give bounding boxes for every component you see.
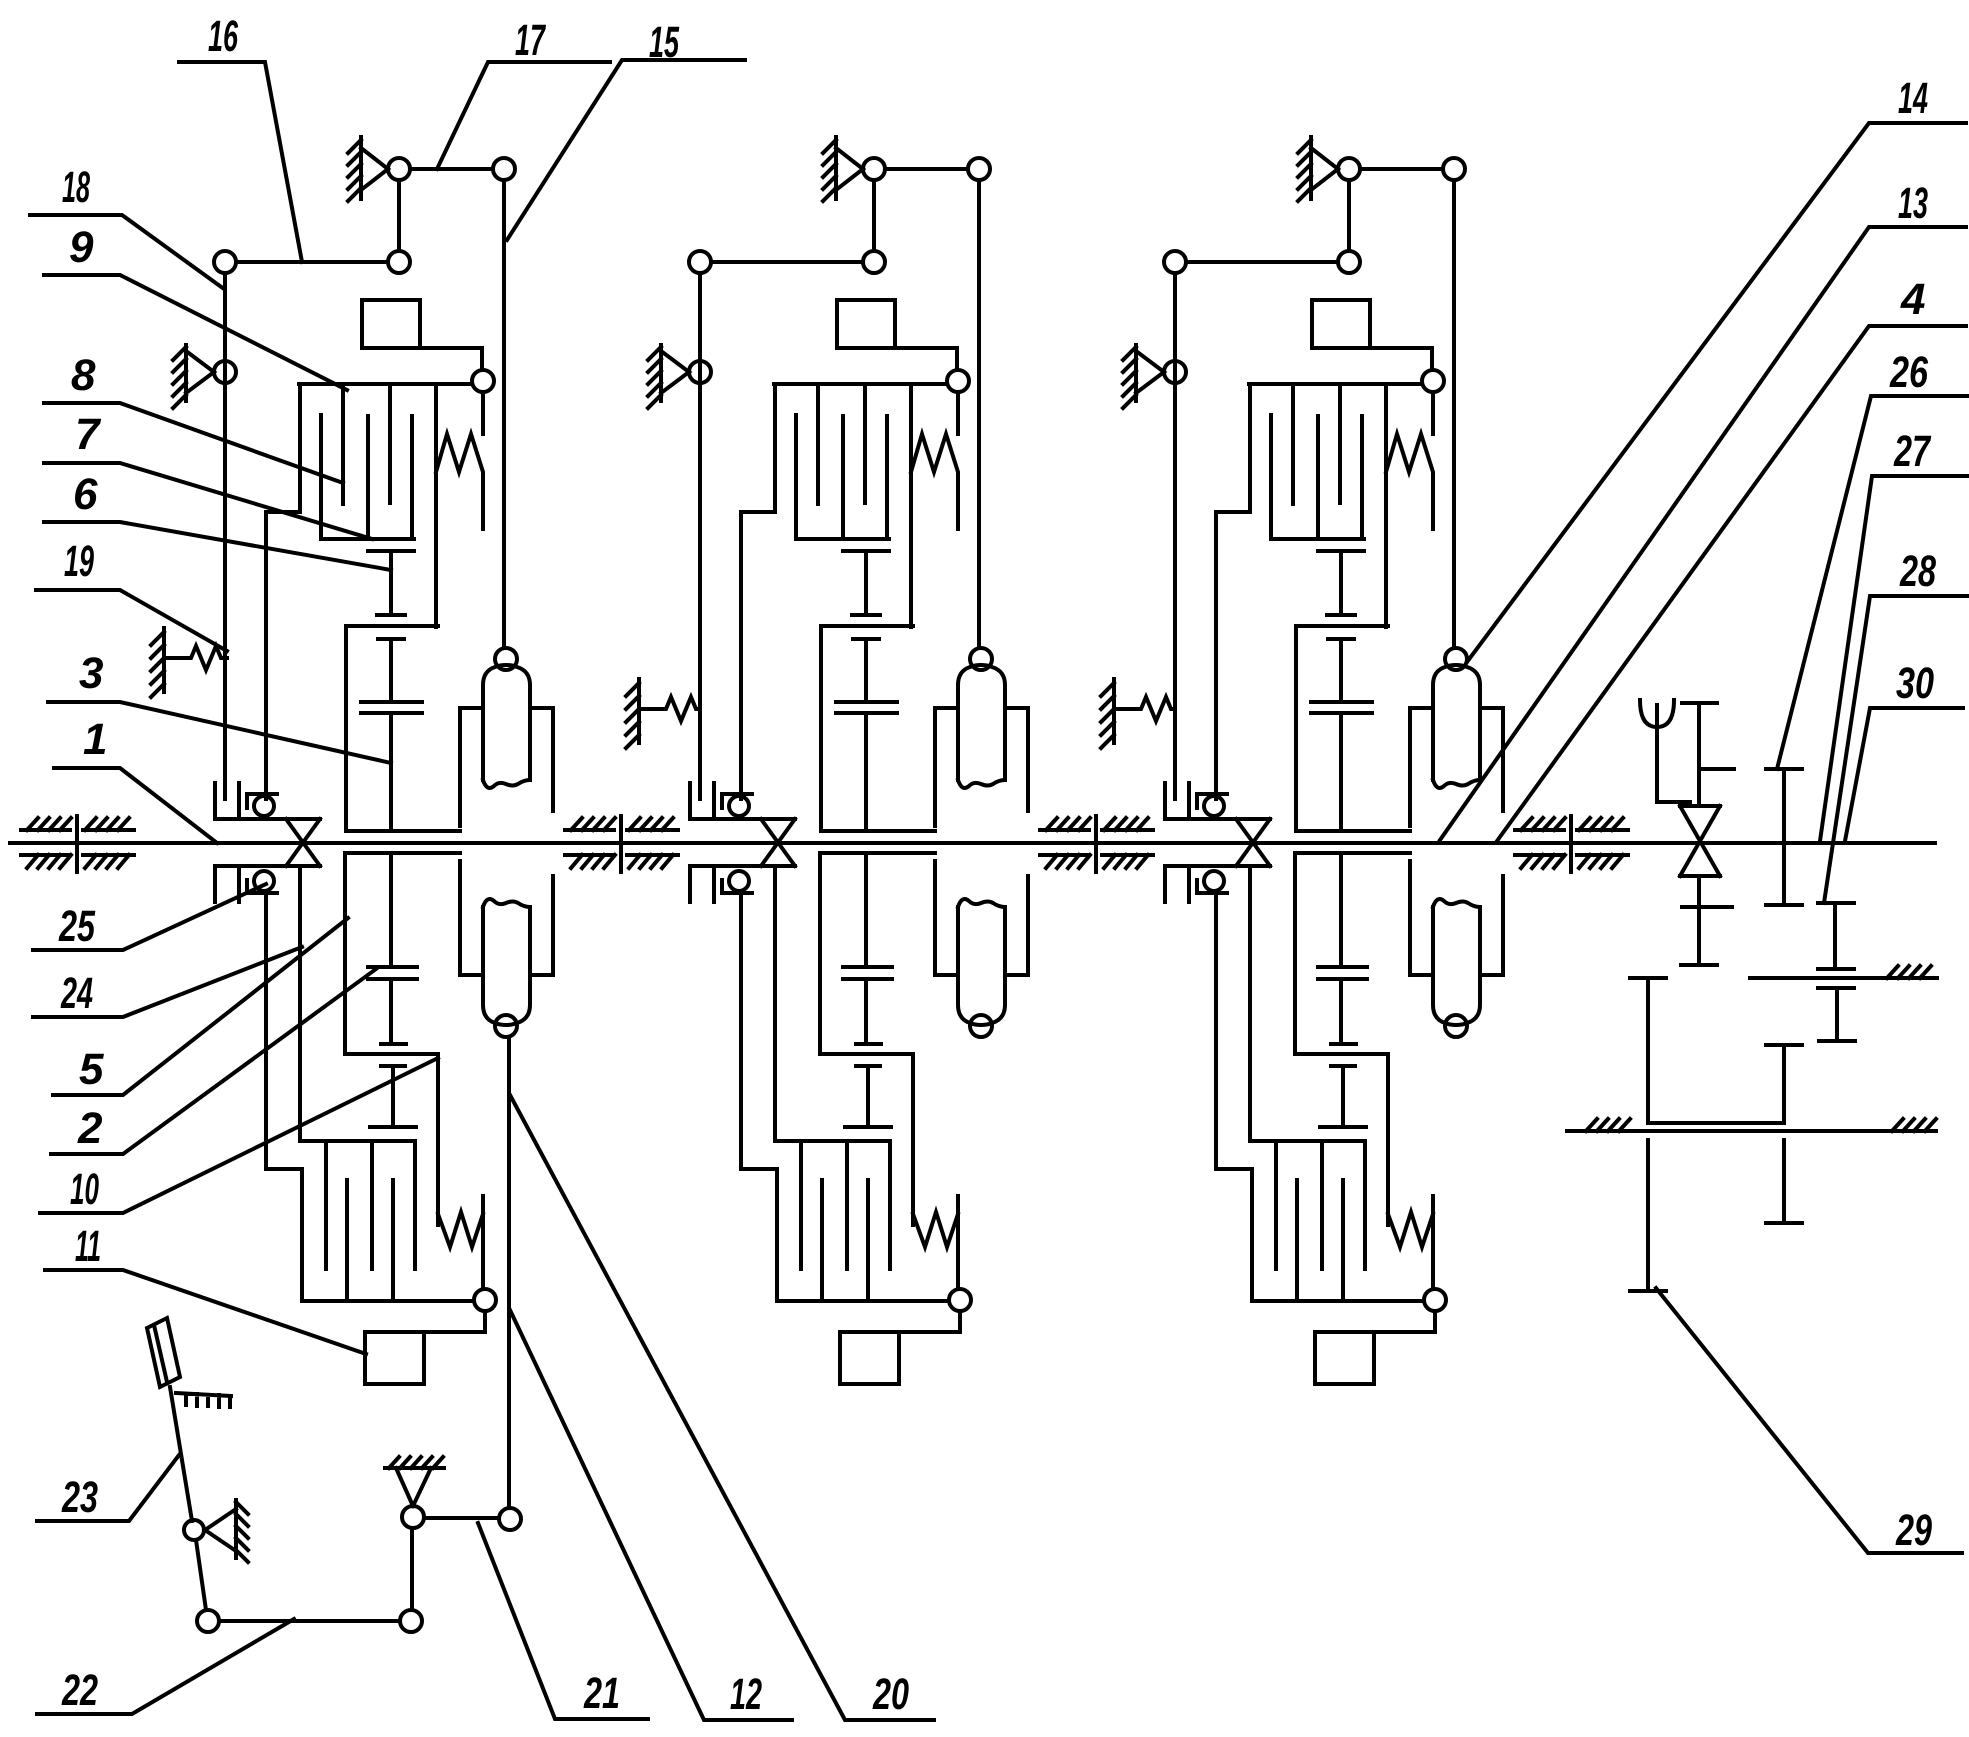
label 5 bbox=[53, 918, 348, 1095]
intermediate shaft bbox=[1750, 976, 1937, 980]
label 16 bbox=[179, 12, 302, 262]
svg-text:23: 23 bbox=[61, 1473, 98, 1522]
brake spring module 3: zigzag bbox=[1114, 697, 1175, 721]
label 22 bbox=[37, 1619, 294, 1715]
control rod from module 1 piston bbox=[507, 1037, 511, 1508]
output bearing cross bbox=[1680, 806, 1720, 876]
planetary module 1 bbox=[173, 137, 553, 1384]
output drum left wall upper bbox=[1630, 978, 1784, 1123]
bottom left joint circle bbox=[197, 1610, 219, 1632]
label 13 bbox=[1440, 179, 1966, 840]
brake spring module 2: zigzag bbox=[639, 697, 700, 721]
label 26 bbox=[1777, 348, 1968, 769]
link bellcrank to rod bbox=[424, 1516, 499, 1520]
label 9 bbox=[44, 223, 347, 390]
label 29 bbox=[1656, 1288, 1962, 1555]
svg-text:29: 29 bbox=[1895, 1506, 1932, 1555]
label 4 bbox=[1497, 275, 1966, 841]
bellcrank pivot circle bbox=[402, 1506, 424, 1528]
svg-text:11: 11 bbox=[75, 1222, 101, 1271]
svg-text:1: 1 bbox=[83, 715, 107, 764]
label 8 bbox=[44, 351, 343, 483]
bellcrank lower joint circle bbox=[400, 1610, 422, 1632]
label 30 bbox=[1845, 659, 1963, 841]
svg-text:26: 26 bbox=[1889, 348, 1928, 397]
output drum left wall lower bbox=[1630, 1140, 1666, 1291]
label 27 bbox=[1820, 427, 1968, 841]
output shaft hatches right bbox=[1892, 1119, 1936, 1131]
gear column on main shaft (right section) bbox=[1681, 703, 1734, 965]
frame support left end bbox=[21, 816, 134, 872]
rod end joint circle bbox=[499, 1508, 521, 1530]
svg-text:10: 10 bbox=[70, 1165, 99, 1214]
svg-text:25: 25 bbox=[58, 902, 95, 951]
ratchet quadrant bbox=[176, 1393, 231, 1407]
svg-text:3: 3 bbox=[79, 649, 103, 698]
svg-text:2: 2 bbox=[77, 1104, 103, 1153]
svg-text:24: 24 bbox=[60, 969, 93, 1018]
label 18 bbox=[30, 163, 224, 289]
label 14 bbox=[1467, 74, 1966, 662]
svg-text:5: 5 bbox=[79, 1045, 104, 1094]
label 11 bbox=[45, 1222, 366, 1354]
pedal pad bbox=[147, 1318, 180, 1387]
bellcrank support triangle bbox=[396, 1468, 431, 1506]
label 21 bbox=[478, 1523, 648, 1719]
label 6 bbox=[44, 470, 391, 570]
label 19 bbox=[36, 537, 227, 651]
svg-text:30: 30 bbox=[1896, 659, 1934, 708]
svg-text:22: 22 bbox=[61, 1666, 98, 1715]
svg-text:28: 28 bbox=[1899, 547, 1936, 596]
svg-text:4: 4 bbox=[1900, 275, 1925, 324]
svg-text:6: 6 bbox=[73, 470, 98, 519]
svg-text:27: 27 bbox=[1893, 427, 1932, 476]
frame support right of module 3 bbox=[1515, 816, 1628, 872]
output drum right wall upper bbox=[1766, 1045, 1802, 1123]
lever pivot circle bbox=[184, 1520, 204, 1540]
output shaft hatches left bbox=[1586, 1119, 1630, 1131]
label 17 bbox=[437, 16, 610, 169]
idler gear right section bbox=[1766, 769, 1802, 905]
label 10 bbox=[40, 1058, 438, 1214]
brake spring module 1: zigzag bbox=[164, 646, 227, 670]
label 2 bbox=[51, 969, 376, 1154]
svg-text:7: 7 bbox=[75, 410, 102, 459]
bellcrank vertical link bbox=[410, 1528, 414, 1610]
svg-text:21: 21 bbox=[583, 1669, 620, 1718]
svg-text:9: 9 bbox=[69, 223, 94, 272]
planetary module 3 bbox=[1123, 137, 1503, 1384]
intermediate shaft hatches bbox=[1887, 966, 1931, 978]
label 12 bbox=[510, 1310, 792, 1720]
planetary module 2 bbox=[648, 137, 1028, 1384]
svg-text:8: 8 bbox=[71, 351, 96, 400]
svg-text:16: 16 bbox=[208, 12, 238, 61]
svg-text:19: 19 bbox=[64, 537, 94, 586]
label 1 bbox=[54, 715, 217, 843]
brake spring module 3: wall bbox=[1101, 679, 1114, 748]
svg-text:20: 20 bbox=[872, 1670, 909, 1719]
svg-text:13: 13 bbox=[1898, 179, 1928, 228]
label 7 bbox=[44, 410, 372, 539]
lever support wall (hatched) bbox=[236, 1500, 248, 1562]
output shaft bbox=[1567, 1129, 1936, 1133]
pinion on intermediate shaft (lower) bbox=[1818, 988, 1855, 1041]
label 25 bbox=[33, 884, 266, 951]
output drum right wall lower bbox=[1766, 1140, 1802, 1223]
fork rod bbox=[1657, 742, 1690, 802]
svg-text:14: 14 bbox=[1898, 74, 1928, 123]
bellcrank ground support bbox=[385, 1457, 444, 1468]
label 3 bbox=[48, 649, 391, 763]
lever support triangle bbox=[205, 1509, 236, 1551]
main shaft bbox=[10, 841, 1935, 845]
label 23 bbox=[37, 1455, 179, 1522]
svg-text:12: 12 bbox=[730, 1670, 762, 1719]
link lever to bottom joint bbox=[196, 1540, 206, 1610]
frame support between module 1 and 2 bbox=[565, 816, 678, 872]
label 15 bbox=[507, 18, 745, 240]
label 20 bbox=[510, 1095, 934, 1720]
label 24 bbox=[33, 947, 302, 1018]
svg-text:18: 18 bbox=[62, 163, 90, 212]
release fork symbol bbox=[1640, 700, 1674, 742]
brake spring module 1: wall bbox=[151, 628, 164, 697]
bottom link bbox=[219, 1619, 400, 1623]
pinion on intermediate shaft (upper) bbox=[1818, 903, 1854, 969]
label 28 bbox=[1824, 547, 1968, 903]
frame support between module 2 and 3 bbox=[1040, 816, 1153, 872]
brake spring module 2: wall bbox=[626, 679, 639, 748]
control lever arm bbox=[170, 1387, 192, 1521]
svg-text:17: 17 bbox=[515, 16, 547, 65]
